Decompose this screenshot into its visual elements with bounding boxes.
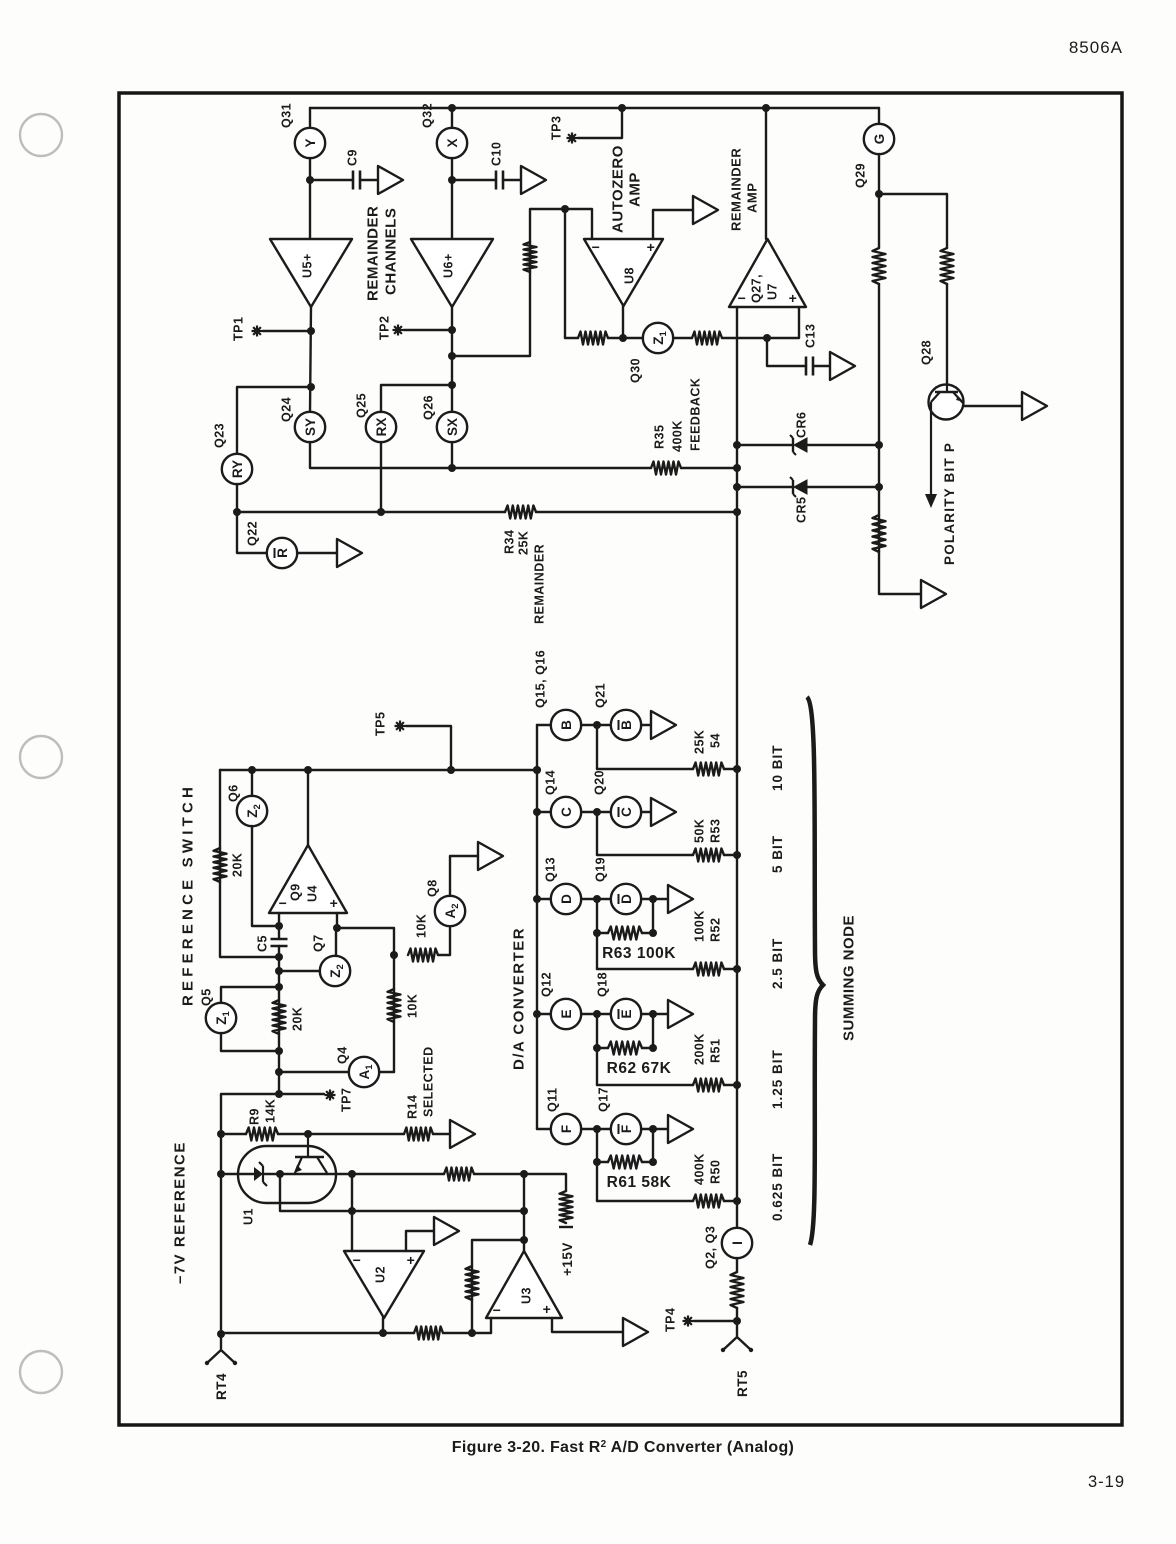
junction 10K to A2 xyxy=(390,951,398,959)
node X tap RX xyxy=(448,381,456,389)
svg-text:R52: R52 xyxy=(709,918,723,942)
wire to RY xyxy=(237,387,311,454)
svg-text:AMP: AMP xyxy=(626,172,643,207)
node C13 xyxy=(763,334,771,342)
resistor R63 xyxy=(608,927,642,940)
transistor Q12 switch E xyxy=(551,999,581,1029)
off-page arrow R14 xyxy=(450,1120,475,1148)
node X/C10 xyxy=(448,176,456,184)
svg-text:R61 58K: R61 58K xyxy=(607,1174,672,1191)
svg-text:R35: R35 xyxy=(653,425,667,449)
junction B/summing bus xyxy=(733,765,741,773)
transistor Q26 switch SX xyxy=(437,412,467,442)
wire B feed xyxy=(597,768,693,770)
wire U3 output column xyxy=(523,1174,525,1251)
wire reference column xyxy=(278,946,280,1094)
svg-text:C: C xyxy=(619,807,634,817)
svg-text:Q11: Q11 xyxy=(546,1088,560,1112)
svg-text:+15V: +15V xyxy=(560,1242,575,1276)
junction CR6/Q29 xyxy=(875,441,883,449)
transistor Q29 switch G xyxy=(864,124,894,154)
wire to R9 xyxy=(221,1133,246,1135)
resistor +15V xyxy=(560,1191,573,1223)
svg-text:5 BIT: 5 BIT xyxy=(770,835,785,873)
junction Q7 xyxy=(275,967,283,975)
IC U1 outline xyxy=(238,1146,336,1203)
transistor Q4 switch A1 xyxy=(349,1057,379,1087)
svg-text:SELECTED: SELECTED xyxy=(422,1046,436,1117)
svg-text:D: D xyxy=(619,894,634,904)
svg-text:Q14: Q14 xyxy=(544,770,558,795)
svg-text:TP4: TP4 xyxy=(664,1308,678,1332)
junction Z1 top xyxy=(275,983,283,991)
wire D loop left xyxy=(596,899,598,933)
svg-text:25K: 25K xyxy=(693,730,707,754)
test point TP7 xyxy=(325,1090,336,1101)
wire reference rail xyxy=(220,769,537,771)
off-page arrow C10 xyxy=(521,166,546,194)
wire U4 output xyxy=(307,770,309,845)
wire U8 noninverting to arrow xyxy=(653,210,693,239)
zener diode U1 xyxy=(254,1167,263,1181)
wire column to Q7 xyxy=(279,970,320,972)
svg-text:TP5: TP5 xyxy=(374,712,388,736)
svg-text:F: F xyxy=(619,1125,634,1133)
resistor R53 xyxy=(693,849,724,862)
resistor I line xyxy=(731,1272,744,1308)
wire E loop right xyxy=(642,1014,653,1048)
wire D feed xyxy=(597,968,693,970)
off-page arrow U2 xyxy=(434,1217,459,1245)
svg-text:U3: U3 xyxy=(520,1287,534,1304)
junction F loop xyxy=(649,1125,657,1133)
wire TP1 xyxy=(263,330,311,332)
svg-text:U8: U8 xyxy=(623,267,637,284)
svg-text:Figure 3-20. Fast R2 A/D Conve: Figure 3-20. Fast R2 A/D Converter (Anal… xyxy=(452,1439,794,1456)
punch hole xyxy=(20,1351,62,1393)
wire SY to R35 xyxy=(310,442,651,468)
wire rail to Q6 xyxy=(251,770,253,796)
junction xyxy=(618,104,626,112)
transistor Q21 switch B-bar xyxy=(611,710,641,740)
junction Q28 branch xyxy=(875,190,883,198)
svg-text:SUMMING NODE: SUMMING NODE xyxy=(840,915,857,1041)
junction D loop left xyxy=(593,929,601,937)
resistor CR5 line xyxy=(873,515,886,552)
resistor 10K horizontal xyxy=(408,949,438,962)
wire to C10 xyxy=(452,179,496,181)
wire Q7 to plus node xyxy=(335,928,337,956)
svg-text:X: X xyxy=(445,138,460,147)
svg-text:G: G xyxy=(872,134,887,145)
wire X tap to U8 inverting input xyxy=(452,209,592,356)
wire E-bar to arrow xyxy=(641,1013,668,1015)
svg-text:1.25 BIT: 1.25 BIT xyxy=(770,1049,785,1109)
wire U8 out to Z1 xyxy=(623,337,643,339)
svg-text:Q30: Q30 xyxy=(629,358,643,383)
svg-text:R63 100K: R63 100K xyxy=(602,945,676,962)
wire X to U6 xyxy=(451,158,453,239)
resistor Q29 line xyxy=(873,248,886,284)
junction CR5/Q29 xyxy=(875,483,883,491)
svg-text:RT5: RT5 xyxy=(735,1370,750,1397)
junction U2 out xyxy=(379,1329,387,1337)
resistor R35 400K xyxy=(651,462,681,475)
resistor U3 feedback xyxy=(466,1266,479,1300)
svg-text:REFERENCE SWITCH: REFERENCE SWITCH xyxy=(179,783,196,1006)
svg-text:20K: 20K xyxy=(291,1007,305,1031)
wire F loop right xyxy=(642,1129,653,1162)
off-page arrow C9 xyxy=(378,166,403,194)
transistor Q13 switch D xyxy=(551,884,581,914)
svg-text:100K: 100K xyxy=(693,910,707,942)
wire 20K loop xyxy=(220,770,279,957)
junction E drop xyxy=(593,1010,601,1018)
node Y tap xyxy=(307,383,315,391)
transistor Q11 switch F xyxy=(551,1114,581,1144)
svg-text:R9: R9 xyxy=(248,1108,262,1125)
svg-text:–7V REFERENCE: –7V REFERENCE xyxy=(171,1141,188,1284)
wire C10 to arrow xyxy=(503,179,521,181)
junction xyxy=(762,104,770,112)
wire D-bar to arrow xyxy=(641,898,668,900)
wire Y to rail xyxy=(309,108,311,128)
svg-text:Y: Y xyxy=(303,138,318,147)
svg-text:R: R xyxy=(275,548,290,558)
junction F/summing bus xyxy=(733,1197,741,1205)
wire U5 output to SY xyxy=(310,307,311,412)
junction U3 fb bottom xyxy=(468,1329,476,1337)
op-amp U5 xyxy=(270,239,352,307)
wire to U7 noninverting xyxy=(722,307,799,338)
svg-text:FEEDBACK: FEEDBACK xyxy=(689,378,703,451)
wire rail to G xyxy=(878,108,880,124)
resistor U1 row xyxy=(444,1168,474,1181)
svg-text:TP2: TP2 xyxy=(378,316,392,340)
svg-text:Q18: Q18 xyxy=(596,972,610,997)
op-amp U3 xyxy=(486,1251,562,1318)
junction U3 node top xyxy=(520,1170,528,1178)
svg-text:10 BIT: 10 BIT xyxy=(770,744,785,791)
wire C9 to arrow xyxy=(360,179,378,181)
svg-text:D: D xyxy=(559,894,574,904)
resistor R9 14K xyxy=(246,1128,278,1141)
junction U2 inv xyxy=(348,1170,356,1178)
summing bus xyxy=(736,307,738,1228)
junction D row xyxy=(533,895,541,903)
transistor Q15, Q16 switch B xyxy=(551,710,581,740)
wire U3 noninverting to arrow xyxy=(552,1318,623,1332)
svg-text:Q28: Q28 xyxy=(920,340,934,365)
svg-text:+: + xyxy=(543,1301,552,1317)
svg-text:Q6: Q6 xyxy=(227,784,241,802)
junction rail xyxy=(533,766,541,774)
svg-text:10K: 10K xyxy=(415,914,429,938)
wire bus to C xyxy=(537,811,550,813)
test point TP1 xyxy=(252,326,263,337)
transistor Q7 switch Z2 xyxy=(320,956,350,986)
wire U6 output to SX xyxy=(451,307,453,412)
wire RY to R-bar xyxy=(237,484,267,553)
svg-text:RX: RX xyxy=(374,418,389,437)
junction E loop left xyxy=(593,1044,601,1052)
svg-text:F: F xyxy=(559,1125,574,1133)
svg-text:200K: 200K xyxy=(693,1033,707,1065)
off-page arrow A2 xyxy=(478,842,503,870)
wire R14 to arrow xyxy=(433,1133,450,1135)
wire to C13 xyxy=(767,338,806,366)
transistor Q24 switch SY xyxy=(295,412,325,442)
junction F drop xyxy=(593,1125,601,1133)
svg-text:AUTOZERO: AUTOZERO xyxy=(609,145,626,233)
test point TP3 xyxy=(567,133,578,144)
junction CR5 xyxy=(733,483,741,491)
svg-text:R62 67K: R62 67K xyxy=(607,1060,672,1077)
op-amp U7 Q27 xyxy=(729,239,806,307)
diode CR5 xyxy=(792,480,794,494)
junction U1 row xyxy=(217,1170,225,1178)
op-amp U6 xyxy=(411,239,493,307)
junction TP5 xyxy=(447,766,455,774)
svg-text:Q15, Q16: Q15, Q16 xyxy=(534,650,548,708)
resistor 20K upper xyxy=(214,848,227,882)
transistor Q20 switch C-bar xyxy=(611,797,641,827)
junction B drop xyxy=(593,721,601,729)
off-page arrow polarity xyxy=(921,580,946,608)
svg-text:E: E xyxy=(559,1009,574,1018)
svg-text:R53: R53 xyxy=(709,819,723,843)
wire E loop left xyxy=(596,1014,598,1048)
op-amp U2 xyxy=(344,1251,424,1318)
svg-text:U2: U2 xyxy=(374,1266,388,1283)
svg-text:Q27,: Q27, xyxy=(750,274,764,303)
node X tap U8 xyxy=(448,352,456,360)
junction U2 inv row xyxy=(348,1207,356,1215)
test point TP5 xyxy=(395,721,406,732)
wire A1 to 10K column xyxy=(379,1071,394,1073)
wire to feedback resistor xyxy=(565,337,578,339)
svg-text:C13: C13 xyxy=(804,324,818,348)
wire D feed to bus xyxy=(724,968,737,970)
wire bottom row left xyxy=(221,1332,383,1334)
wire column to A1 xyxy=(279,1071,349,1073)
svg-text:REMAINDER: REMAINDER xyxy=(364,206,381,301)
resistor R52 xyxy=(693,963,724,976)
wire F to F-bar xyxy=(581,1128,611,1130)
resistor R51 xyxy=(693,1079,724,1092)
junction D loop xyxy=(649,895,657,903)
svg-text:2.5 BIT: 2.5 BIT xyxy=(770,938,785,989)
svg-text:Q7: Q7 xyxy=(312,934,326,952)
wire zener to emitter xyxy=(263,1173,295,1175)
svg-text:C: C xyxy=(559,807,574,817)
wire C-bar to arrow xyxy=(641,811,651,813)
svg-text:CR5: CR5 xyxy=(795,496,809,523)
punch hole xyxy=(20,736,62,778)
svg-text:REMAINDER: REMAINDER xyxy=(533,544,547,624)
wire to Q28 xyxy=(946,284,948,385)
svg-text:−: − xyxy=(493,1302,502,1318)
wire CR6 left xyxy=(737,444,793,446)
wire TP5 to rail xyxy=(406,726,451,770)
transistor Q30 switch Z1 xyxy=(643,323,673,353)
transistor Q6 switch Z2 xyxy=(237,796,267,826)
wire F-bar to arrow xyxy=(641,1128,668,1130)
svg-text:Q8: Q8 xyxy=(426,879,440,897)
resistor U8 input xyxy=(524,242,537,272)
wire F feed xyxy=(597,1200,693,1202)
wire bus to E xyxy=(537,1013,550,1015)
svg-text:SX: SX xyxy=(445,418,460,436)
junction E/summing bus xyxy=(733,1081,741,1089)
wire Q28 emitter to arrow xyxy=(963,405,1022,407)
svg-text:10K: 10K xyxy=(406,994,420,1018)
resistor Z1 series xyxy=(692,332,722,345)
svg-text:TP1: TP1 xyxy=(232,317,246,341)
transistor Q17 switch F-bar xyxy=(611,1114,641,1144)
junction F loop right xyxy=(649,1158,657,1166)
wire bus to F xyxy=(537,1128,550,1130)
svg-text:Q24: Q24 xyxy=(280,397,294,422)
svg-text:POLARITY BIT P: POLARITY BIT P xyxy=(942,442,957,565)
resistor 20K lower xyxy=(273,1000,286,1034)
off-page arrow F xyxy=(668,1115,693,1143)
wire U3 feedback xyxy=(472,1240,524,1332)
resistor U2 out xyxy=(414,1327,443,1340)
wire C feed xyxy=(597,854,693,856)
wire U8 output xyxy=(622,306,624,338)
svg-text:SY: SY xyxy=(303,418,318,436)
wire TP4 xyxy=(694,1320,737,1322)
capacitor C9 xyxy=(352,171,355,190)
transistor Q31 switch Y xyxy=(295,128,325,158)
transistor U1 internal xyxy=(295,1156,324,1159)
wire Q6 to C5 node xyxy=(252,826,279,926)
node TP1 xyxy=(307,327,315,335)
wire U4 plus stub xyxy=(336,913,338,928)
wire U2 output xyxy=(382,1318,384,1333)
transistor Q23 switch RY xyxy=(222,454,252,484)
wire Z1 top loop xyxy=(221,987,279,1003)
transistor Q19 switch D-bar xyxy=(611,884,641,914)
junction C drop xyxy=(593,808,601,816)
resistor R34 25K xyxy=(505,506,536,519)
wire D drop xyxy=(596,933,598,969)
svg-text:20K: 20K xyxy=(231,853,245,877)
wire Z1 to resistor xyxy=(673,337,692,339)
svg-text:U4: U4 xyxy=(306,885,320,902)
punch hole xyxy=(20,114,62,156)
junction F loop left xyxy=(593,1158,601,1166)
svg-text:−: − xyxy=(279,895,288,911)
svg-text:E: E xyxy=(619,1009,634,1018)
resistor R50 xyxy=(693,1195,724,1208)
svg-text:Q29: Q29 xyxy=(854,163,868,188)
test point TP2 xyxy=(393,325,404,336)
svg-text:+: + xyxy=(407,1252,416,1268)
wire to +15V resistor xyxy=(474,1174,566,1191)
wire loop join xyxy=(597,1161,608,1163)
svg-text:Q32: Q32 xyxy=(421,103,435,128)
junction Q6 xyxy=(248,766,256,774)
off-page arrow E xyxy=(668,1000,693,1028)
transistor Q14 switch C xyxy=(551,797,581,827)
junction C row xyxy=(533,808,541,816)
wire X to rail xyxy=(451,108,453,128)
wire RX to R34 row xyxy=(380,442,382,512)
supply +15V tick xyxy=(559,1226,573,1228)
svg-text:U5+: U5+ xyxy=(301,253,315,278)
svg-text:3-19: 3-19 xyxy=(1088,1473,1125,1491)
wire Y to U5 xyxy=(309,158,311,239)
border frame xyxy=(119,93,1122,1425)
node TP2 xyxy=(448,326,456,334)
svg-text:400K: 400K xyxy=(693,1153,707,1185)
svg-text:Q21: Q21 xyxy=(594,683,608,708)
svg-text:AMP: AMP xyxy=(745,183,760,213)
brace summing node xyxy=(807,697,823,1245)
svg-text:R51: R51 xyxy=(709,1039,723,1063)
svg-text:Q12: Q12 xyxy=(540,972,554,997)
wire C feed to bus xyxy=(724,854,737,856)
off-page arrow U3 xyxy=(623,1318,648,1346)
junction TP4 xyxy=(733,1317,741,1325)
resistor R61 xyxy=(608,1156,642,1169)
svg-text:Q23: Q23 xyxy=(213,423,227,448)
capacitor C13 xyxy=(805,357,808,376)
junction E loop xyxy=(649,1010,657,1018)
svg-text:+: + xyxy=(789,290,798,306)
svg-text:Q2, Q3: Q2, Q3 xyxy=(704,1226,718,1269)
wire F feed to bus xyxy=(724,1200,737,1202)
wire to C9 xyxy=(310,179,353,181)
svg-text:Q4: Q4 xyxy=(336,1046,350,1064)
wire resistor to TP4 xyxy=(736,1308,738,1321)
junction R34 row xyxy=(233,508,241,516)
svg-text:50K: 50K xyxy=(693,819,707,843)
wire B feed to bus xyxy=(724,768,737,770)
off-page arrow C xyxy=(651,798,676,826)
junction SX/R35 xyxy=(448,464,456,472)
wire D loop right xyxy=(642,899,653,933)
svg-text:RY: RY xyxy=(230,460,245,478)
svg-text:U6+: U6+ xyxy=(442,253,456,278)
svg-text:0.625 BIT: 0.625 BIT xyxy=(770,1153,785,1221)
svg-text:TP3: TP3 xyxy=(550,116,564,140)
svg-text:+: + xyxy=(330,895,339,911)
svg-text:14K: 14K xyxy=(264,1099,278,1123)
wire R34 to summing bus xyxy=(536,511,737,513)
svg-text:RT4: RT4 xyxy=(214,1373,229,1400)
wire F drop xyxy=(596,1162,598,1201)
resistor 54 xyxy=(693,763,724,776)
resistor 10K vertical xyxy=(388,989,401,1022)
transistor Q25 switch RX xyxy=(366,412,396,442)
junction 20K loop xyxy=(275,953,283,961)
wire A2 to arrow xyxy=(450,856,478,896)
junction U3 column xyxy=(520,1207,528,1215)
wire U3 inverting stub xyxy=(490,1318,492,1333)
svg-text:C5: C5 xyxy=(256,935,270,952)
off-page arrow R-bar xyxy=(337,539,362,567)
wire Z1 bottom loop xyxy=(221,1033,279,1051)
wire U4 inv to C5 xyxy=(278,913,280,939)
svg-text:−: − xyxy=(592,239,601,255)
junction E row xyxy=(533,1010,541,1018)
wire U2 noninverting to arrow xyxy=(406,1231,434,1251)
wire R35 to summing bus xyxy=(681,467,737,469)
svg-text:54: 54 xyxy=(709,733,723,748)
